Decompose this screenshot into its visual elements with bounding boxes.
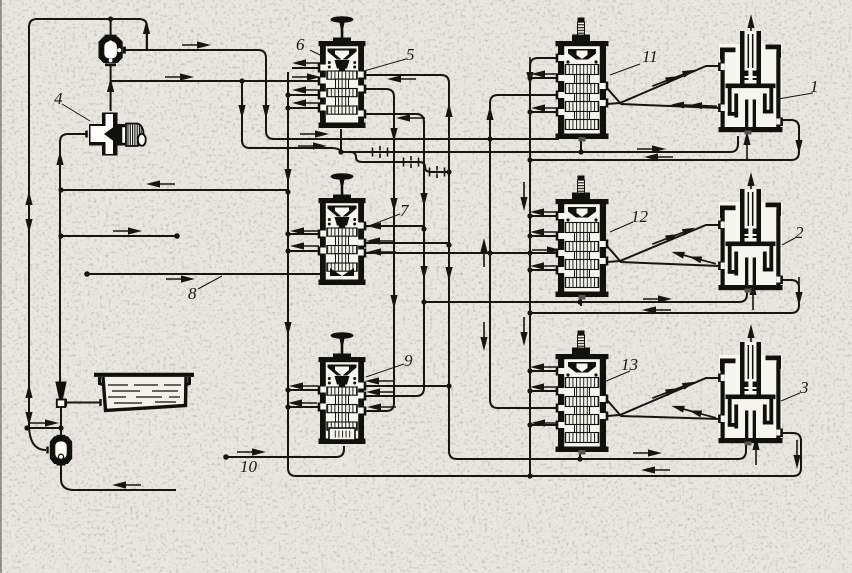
wire: valve5 port2 rail x394 to valve9 right port3 — [364, 89, 394, 411]
junction dot (288,108) — [285, 105, 290, 110]
wire: y50 from octagon right to elbow x266 down to y137 line — [123, 50, 559, 139]
wire: octagon stem up — [110, 19, 112, 37]
junction dot (530,476) — [527, 473, 532, 478]
flow arrow at (656,310) — [642, 306, 671, 313]
flow arrow at (29,412) — [25, 397, 32, 426]
junction dot (449,386) — [446, 383, 451, 388]
wire: valve7 right port2 to rail448 — [364, 242, 449, 244]
flow arrow at (288,322) — [284, 307, 291, 336]
flow arrow at (544,387) — [530, 383, 559, 390]
flow arrow at (424,266) — [420, 251, 427, 280]
svg-text:8: 8 — [188, 284, 197, 303]
junction dot (288,251) — [285, 248, 290, 253]
leader line — [610, 64, 640, 75]
flow arrow at (484,252) — [480, 238, 487, 267]
flow arrow at (658,157) — [644, 153, 673, 160]
wire: L3 return y476 — [296, 433, 801, 476]
flow arrow at (306,63) — [292, 59, 321, 66]
flow arrow at (60,165) — [56, 151, 63, 180]
stem spool valve 11 — [556, 18, 609, 142]
wire: valve12 stem — [580, 299, 582, 306]
flow arrow at (304,246) — [290, 242, 319, 249]
wire: top-left loop y19 — [29, 19, 147, 424]
flow arrow at (128,231) — [113, 227, 142, 234]
junction dot (288,407) — [285, 404, 290, 409]
leader line — [610, 222, 633, 232]
leader line — [152, 390, 178, 392]
flow arrow at (381,226) — [367, 222, 396, 229]
flow arrow at (380,392) — [366, 388, 395, 395]
junction dot (61,236) — [58, 233, 63, 238]
junction dot (424,302) — [421, 299, 426, 304]
leader line — [778, 93, 813, 99]
junction dot (530,112) — [527, 109, 532, 114]
wire: crossing v13-cyl3 lineA — [607, 400, 720, 419]
flow arrow at (29,398) — [25, 384, 32, 413]
wire: rail x242 from y81 down elbow to y148 cross line — [242, 81, 341, 152]
flow arrow at (449,117) — [445, 103, 452, 132]
junction dot (61,190) — [58, 187, 63, 192]
flow arrow at (751,186) — [747, 172, 754, 201]
flow arrow at (381,252) — [367, 248, 396, 255]
svg-text:6: 6 — [296, 35, 305, 54]
flow arrow at (648,453) — [633, 449, 662, 456]
flow arrow at (160,184) — [146, 180, 175, 187]
flow arrow at (45,423) — [30, 419, 59, 426]
handwheel control valve 9 — [319, 332, 366, 444]
wire: funnel to tank — [66, 402, 100, 404]
telescopic cylinder 1 — [719, 31, 783, 135]
flow arrow at (379,381) — [365, 377, 394, 384]
junction dot (87,274) — [84, 271, 90, 277]
junction dot (530,216) — [527, 213, 532, 218]
wire: stub y428 — [27, 427, 61, 429]
flow arrow at (381,407) — [367, 403, 396, 410]
wire: circuit1 supply y152 — [341, 136, 738, 152]
double flow arrow at (684,386) — [651, 378, 696, 401]
flow arrow at (544,266) — [530, 262, 559, 269]
leader line — [134, 384, 158, 386]
leader line — [108, 396, 126, 398]
svg-text:5: 5 — [406, 45, 415, 64]
wire: valve13 stem — [579, 454, 581, 459]
flow arrow at (410,118) — [396, 114, 425, 121]
wire: crossing v12-cyl2 lineA — [607, 246, 720, 266]
filter octagon (top left) — [99, 36, 125, 65]
flow arrow at (197,45) — [182, 41, 211, 48]
wire: valve9 left stubs — [288, 389, 320, 391]
flow arrow at (126,485) — [112, 481, 141, 488]
leader line — [782, 238, 795, 245]
leader line — [366, 214, 400, 227]
junction dot (288,192) — [285, 189, 290, 194]
flow arrow at (652,149) — [637, 145, 666, 152]
junction dot (580,459) — [577, 456, 582, 461]
flow arrow at (544,212) — [530, 208, 559, 215]
wire: octagon bottom to pump + y81 line to valve6 — [110, 65, 112, 111]
wire: valve5 port3 rail x424 to valve9 right port2 — [364, 114, 424, 396]
leader line — [198, 276, 222, 289]
junction dot (530,270) — [527, 267, 532, 272]
junction dot (580,302) — [577, 299, 582, 304]
flow arrow at (304,231) — [290, 227, 319, 234]
line 10 — [226, 446, 344, 457]
leader line — [164, 384, 181, 386]
wire: coupling cascade — [341, 152, 449, 172]
flow arrow at (306,103) — [292, 99, 321, 106]
wire: valve7 right port1 to rail424 — [364, 225, 424, 227]
flow arrow at (799,292) — [795, 277, 802, 306]
flow arrow at (655,470) — [641, 466, 670, 473]
flow arrow at (797,455) — [793, 440, 800, 469]
leader line — [366, 364, 404, 377]
wire: valve7 left stubs — [288, 233, 320, 235]
double flow arrow at (684,232) — [651, 224, 696, 247]
junction dot (530,371) — [527, 368, 532, 373]
junction dot (530,253) — [527, 250, 532, 255]
wire: y253 line valve7 port3 to valve12 port3 — [364, 252, 558, 254]
flow arrow at (547,250) — [532, 246, 561, 253]
svg-text:11: 11 — [642, 47, 658, 66]
wire: valve9 right port1 line to rail449 — [364, 385, 449, 387]
flow arrow at (658,299) — [643, 295, 672, 302]
flow arrow at (252,452) — [237, 448, 266, 455]
double flow arrow at (683,255) — [671, 249, 717, 268]
flow arrow at (753,295) — [749, 281, 756, 310]
leader line — [114, 402, 142, 404]
junction dot (449,245) — [446, 242, 451, 247]
flow arrow at (544,232) — [530, 228, 559, 235]
junction dot (61,456.8) — [58, 454, 63, 459]
junction dot (226,457) — [223, 454, 229, 460]
leader line — [781, 393, 800, 401]
junction dot (530,313) — [527, 310, 532, 315]
wire: pump4 left port to funnel rail x61 — [60, 134, 86, 384]
wire: valve12 left stubs — [530, 215, 558, 217]
wire: rail x530 drain — [530, 58, 558, 476]
junction dot (530,425) — [527, 422, 532, 427]
pump 4 with motor — [87, 113, 146, 156]
flow arrow at (313,146) — [298, 142, 327, 149]
wire: valve11 stem bottom — [580, 141, 582, 152]
leader line — [112, 390, 140, 392]
hose coupling K1 — [373, 146, 388, 158]
stem spool valve 13 — [556, 331, 609, 455]
flow arrow at (146.5,34) — [143, 20, 150, 49]
junction dot (530,78) — [527, 75, 532, 80]
junction dot (288,390) — [285, 387, 290, 392]
svg-text:4: 4 — [54, 89, 63, 108]
flow arrow at (490,120) — [486, 106, 493, 135]
wire: valve6 left stubs — [292, 67, 320, 69]
leader line — [604, 371, 630, 382]
leader line — [62, 104, 90, 121]
stem spool valve 12 — [556, 176, 609, 300]
flow arrow at (266,105) — [262, 90, 269, 119]
flow arrow at (29,219) — [25, 204, 32, 233]
handwheel control valve 6/5 — [319, 16, 366, 128]
flow arrow at (180,77) — [165, 73, 194, 80]
flow arrow at (306,90) — [292, 86, 321, 93]
oval pump (bottom left) — [48, 436, 73, 464]
flow arrow at (302,403) — [288, 399, 317, 406]
leader line — [364, 59, 406, 71]
wire: valve5 port1 rail x449 to bottom y459 — [364, 75, 746, 459]
telescopic cylinder 2 — [719, 189, 783, 293]
flow arrow at (530,72) — [526, 57, 533, 86]
flow arrows — [25, 14, 802, 489]
wire: circuit2 supply y302 — [424, 288, 747, 302]
wire: oval pump bottom out — [61, 465, 176, 490]
svg-text:2: 2 — [795, 223, 804, 242]
junction dot (530,391) — [527, 388, 532, 393]
wire: valve11 left stubs — [530, 77, 558, 79]
wire: line 8 — [87, 273, 322, 275]
flow arrow at (756,450) — [752, 436, 759, 465]
leader line — [136, 396, 162, 398]
junction dot (581,152) — [578, 149, 583, 154]
reservoir tank — [94, 375, 194, 411]
flow arrow at (315,134) — [300, 130, 329, 137]
leader line — [169, 396, 180, 398]
flow arrow at (29,205) — [25, 191, 32, 220]
wire: y190 line — [61, 189, 288, 191]
double flow arrow at (683,409) — [671, 403, 717, 422]
wire: crossing v11-cyl1 lineB — [607, 66, 720, 104]
double flow arrow at (684,74) — [651, 66, 696, 89]
flow arrow at (544,367) — [530, 363, 559, 370]
wire: valve13 left stubs — [530, 370, 558, 372]
wire: circuit1 return y160 — [530, 120, 799, 160]
svg-text:3: 3 — [799, 378, 809, 397]
wire: circuit2 return y313 — [530, 280, 799, 313]
wire: funnel to oval pump — [60, 406, 62, 436]
wire: crossing v12-cyl2 lineB — [607, 225, 720, 262]
junction dot (530,236) — [527, 233, 532, 238]
funnel filter — [55, 382, 66, 408]
wire: x27 left rail bottom elbow into oval pump — [29, 424, 46, 450]
junction dot (27,428) — [24, 425, 29, 430]
wire: left drain rail x288 valve6/7/9 — [288, 72, 296, 476]
flow arrow at (380,241) — [366, 237, 395, 244]
left scan border — [0, 0, 2, 573]
junction dot (242,81) — [239, 78, 244, 83]
junction dot (341,152) — [338, 149, 343, 154]
hose coupling K2 — [404, 156, 419, 168]
flow arrow at (524,332) — [520, 317, 527, 346]
flow arrow at (449,267) — [445, 252, 452, 281]
flow arrow at (288,169) — [284, 154, 291, 183]
junction dot (110.6,19) — [108, 16, 113, 21]
wire: y236 stub — [61, 235, 177, 237]
flow arrow at (484,337) — [480, 322, 487, 351]
flow arrow at (424,193) — [420, 178, 427, 207]
flow arrow at (747,145) — [743, 131, 750, 160]
flow arrow at (307,77) — [292, 73, 321, 80]
flow arrow at (401,79) — [387, 75, 416, 82]
flow arrow at (303,386) — [289, 382, 318, 389]
svg-text:9: 9 — [404, 351, 413, 370]
hose coupling K3 — [430, 166, 445, 178]
junction dot (288,234) — [285, 231, 290, 236]
wire: valve6 stem to y152 — [340, 129, 342, 152]
handwheel control valve 7 — [319, 173, 366, 285]
flow arrow at (545,423) — [531, 419, 560, 426]
flow arrow at (545,74) — [531, 70, 560, 77]
flow arrow at (181,279) — [166, 275, 195, 282]
leader line — [310, 50, 322, 56]
svg-text:1: 1 — [810, 77, 819, 96]
wire: crossing v11-cyl1 lineA — [607, 88, 720, 108]
wire: crossing v13-cyl3 lineB — [607, 378, 720, 416]
flow arrow at (799,140) — [795, 125, 802, 154]
junction dot (490,253) — [487, 250, 492, 255]
junction dot (177,236) — [174, 233, 180, 239]
double flow arrow at (683,105) — [671, 101, 717, 110]
flow arrow at (394,128) — [390, 113, 397, 142]
svg-text:12: 12 — [631, 207, 649, 226]
flow arrow at (394,198) — [390, 183, 397, 212]
flow arrow at (242,105) — [238, 90, 245, 119]
svg-text:10: 10 — [240, 457, 258, 476]
flow arrow at (751,338) — [747, 324, 754, 353]
telescopic cylinder 3 — [719, 342, 783, 446]
junction dot (530,160) — [527, 157, 532, 162]
flow arrow at (110.6,92) — [107, 78, 114, 107]
leader line — [108, 384, 128, 386]
junction dot (424,229) — [421, 226, 426, 231]
leader line — [155, 401, 176, 403]
flow arrow at (545,108) — [531, 104, 560, 111]
flow arrow at (524,197) — [520, 182, 527, 211]
flow arrow at (394,295) — [390, 280, 397, 309]
svg-text:13: 13 — [621, 355, 638, 374]
junction dot (288,95) — [285, 92, 290, 97]
junction dot (61,428) — [58, 425, 63, 430]
flow arrow at (751,28) — [747, 14, 754, 43]
junction dot (449,172) — [446, 169, 451, 174]
junction dot (490,139) — [487, 136, 492, 141]
wire: rail x490 (port3 feed) — [490, 95, 558, 408]
